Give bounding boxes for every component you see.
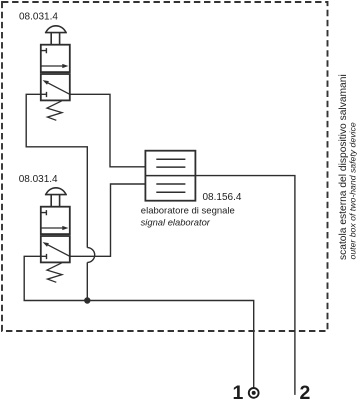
V2 blocked port T (bottom box) — [41, 254, 47, 259]
V1 flow arrow (top box) — [41, 65, 62, 67]
U1 middle divider — [145, 175, 195, 177]
V2 pushbutton cap — [45, 188, 67, 195]
wire crossover hop over V2 output — [87, 248, 94, 263]
junction dot (bottom bus / V1 branch) — [84, 297, 90, 303]
svg-text:signal elaborator: signal elaborator — [141, 217, 211, 228]
V1 return spring — [47, 101, 62, 120]
U1 internal line 3 — [156, 183, 185, 185]
U1 internal line 2 — [156, 166, 185, 168]
V2 flow arrow (top box) — [41, 227, 62, 229]
V2 return spring — [47, 263, 62, 282]
svg-text:elaboratore di segnale: elaboratore di segnale — [141, 205, 235, 216]
wire: V1 left port down and across to crossover vertical — [26, 94, 87, 247]
svg-text:08.031.4: 08.031.4 — [19, 174, 58, 185]
V1 exhaust diagonal (bottom box) — [47, 82, 70, 94]
U1 internal line 1 — [156, 158, 185, 160]
valve V2 (3/2 pushbutton valve) — [41, 188, 70, 282]
V2 body top box — [41, 207, 70, 234]
V2 body bottom box — [41, 236, 70, 262]
V1 plunger stem — [51, 33, 59, 45]
U1 internal line 4 — [156, 191, 185, 193]
outer dashed enclosure box — [2, 2, 328, 331]
svg-text:2: 2 — [300, 382, 311, 400]
V1 blocked port T (bottom box) — [41, 92, 47, 97]
V1 pushbutton cap — [45, 26, 67, 33]
wire: V2 right port to U1 lower input — [70, 184, 146, 256]
V1 blocked port T (top box) — [41, 48, 47, 53]
signal elaborator block U1 — [145, 151, 195, 201]
svg-text:08.031.4: 08.031.4 — [19, 12, 58, 23]
valve V1 (3/2 pushbutton valve) — [41, 26, 70, 120]
svg-text:1: 1 — [233, 382, 244, 400]
wire: continue down to bottom bus — [86, 262, 88, 300]
V2 blocked port T (top box) — [41, 210, 47, 215]
V1 body top box — [41, 45, 70, 72]
V1 body bottom box — [41, 74, 70, 100]
V2 plunger stem — [51, 195, 59, 207]
port 1 connector circle — [249, 388, 259, 398]
wire: V1 right port to U1 upper input — [70, 94, 146, 167]
wire: U1 output to port 2 — [195, 176, 295, 395]
V2 exhaust diagonal (bottom box) — [47, 244, 70, 256]
svg-text:outer box of two-hand safety d: outer box of two-hand safety device — [347, 122, 357, 259]
wire: V2 left port to bottom bus and to port 1 — [24, 256, 254, 387]
svg-text:08.156.4: 08.156.4 — [203, 192, 242, 203]
